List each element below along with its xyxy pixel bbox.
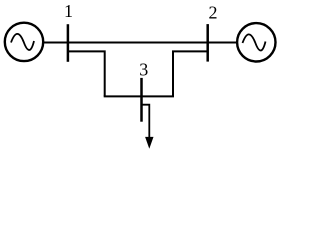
svg-text:1: 1 — [64, 1, 73, 21]
svg-text:2: 2 — [209, 3, 218, 23]
bus 3 — [140, 78, 143, 122]
bus 1 — [67, 24, 70, 62]
wire bottom feeder at bus 3 — [104, 95, 174, 97]
wire tap from bus 2 down to bus 3 feeder — [173, 51, 208, 96]
bus 2 — [206, 24, 209, 62]
wire tap from bus 1 down to bus 3 feeder — [68, 51, 105, 96]
wire main horizontal bus1-bus2 with generator leads — [42, 42, 238, 44]
generator G1 — [5, 23, 43, 61]
svg-text:3: 3 — [139, 60, 148, 80]
load arrow at bus 3 — [145, 137, 153, 149]
generator G2 — [237, 23, 275, 61]
wire load tap from bus 3 — [142, 105, 150, 139]
